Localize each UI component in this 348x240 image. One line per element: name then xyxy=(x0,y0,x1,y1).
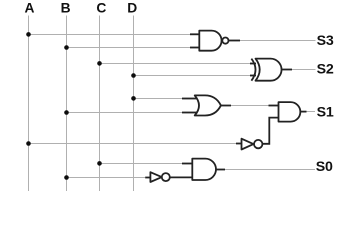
svg-text:B: B xyxy=(61,1,71,16)
svg-text:A: A xyxy=(24,1,34,16)
svg-text:S3: S3 xyxy=(317,33,334,49)
svg-text:S2: S2 xyxy=(317,62,334,78)
svg-text:S1: S1 xyxy=(317,105,334,121)
svg-text:C: C xyxy=(96,1,106,16)
svg-text:D: D xyxy=(127,1,137,16)
svg-text:S0: S0 xyxy=(316,159,333,175)
